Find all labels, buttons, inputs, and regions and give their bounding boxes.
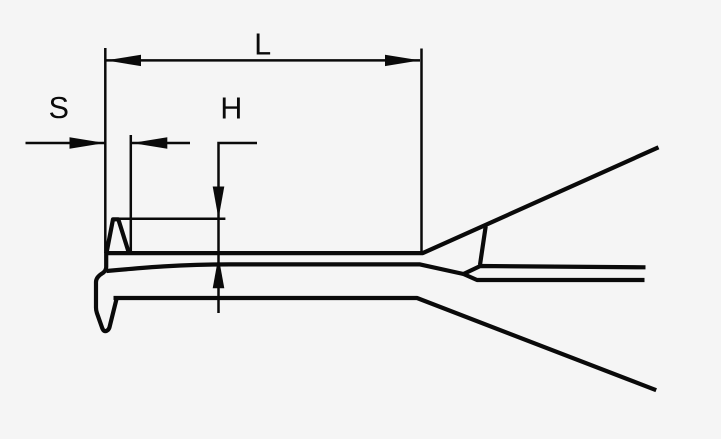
wedge lower arm and blade bottom edge [464, 274, 645, 280]
lower jaw pointed tip outline [96, 252, 116, 331]
upper jaw top edge and rising diagonal [106, 147, 659, 253]
knife-edge triangle tip [107, 219, 129, 253]
extension line right (x=421.5) [420, 49, 423, 252]
arrowhead S right [132, 137, 167, 149]
label H [223, 98, 240, 119]
arrowhead H down [213, 187, 225, 219]
dimension line L [106, 59, 420, 62]
apex reference line [117, 217, 225, 220]
dimension line S right tail [132, 142, 190, 145]
extension line left (x=105) [104, 48, 107, 253]
arrowhead S left [70, 137, 105, 149]
arrowhead L left [106, 55, 141, 66]
lower jaw bottom edge and falling diagonal [114, 298, 657, 390]
leader H [219, 143, 258, 313]
wedge upper arm and blade top edge [464, 266, 646, 274]
label S [50, 97, 68, 119]
slanted step segment [480, 226, 486, 264]
label L [257, 34, 270, 55]
upper jaw bottom edge sloping to wedge apex [107, 264, 464, 274]
extension line S right (x=130.8) [130, 135, 133, 253]
arrowhead H up [213, 256, 225, 288]
arrowhead L right [385, 55, 420, 66]
dimension line S left tail [26, 142, 106, 145]
